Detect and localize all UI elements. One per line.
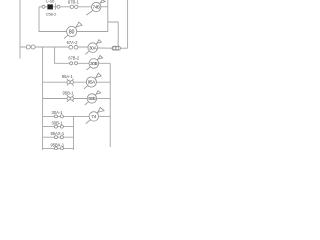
wire right bus R4 (109, 63, 111, 147)
wire right bus R1 (77, 0, 108, 32)
connector 67B-1 (68, 0, 80, 8)
svg-text:67B-1: 67B-1 (68, 0, 80, 5)
connector on W2 near left bus (26, 45, 35, 49)
wire fuse to R3 (121, 47, 128, 49)
wire 95B to R4 (97, 98, 111, 100)
connector 67A-2 (67, 40, 79, 49)
wire 95A row W4 (43, 81, 87, 83)
svg-text:C-58: C-58 (46, 0, 56, 4)
node 74 circled reference with flag (86, 107, 104, 123)
wire branch R2 to fuse top (108, 22, 118, 46)
wire 30B-1 row W7 (43, 126, 74, 128)
connector 95B-1 (crossed terminals) (63, 91, 75, 102)
svg-text:30A: 30A (89, 45, 97, 50)
wire 95AX-1 row W8 (43, 136, 74, 138)
svg-text:30B: 30B (90, 61, 98, 66)
svg-text:95B: 95B (88, 96, 96, 101)
wire 30A-1 row W6 (43, 115, 90, 117)
node 95A circled reference with flag (84, 73, 101, 89)
svg-text:C58-2: C58-2 (46, 12, 57, 17)
node 80 circled reference with flag (64, 22, 82, 38)
connector 30A-1 (52, 110, 64, 118)
connector 67B-2 (68, 56, 80, 65)
svg-text:95B-1: 95B-1 (63, 91, 75, 96)
svg-text:30A-1: 30A-1 (52, 110, 64, 115)
wire 95A to R4 (96, 81, 110, 83)
wire vertical L4 drop to 67B-2 row (55, 47, 72, 63)
connector 30B-1 (52, 120, 64, 128)
connector 95A-1 (crossed terminals) (62, 74, 74, 85)
node 95B circled reference with flag (85, 91, 101, 105)
svg-text:74B: 74B (93, 5, 100, 10)
node 30A circled reference with flag (85, 40, 101, 55)
svg-text:30B-1: 30B-1 (52, 120, 64, 125)
connector 95BX-1 (50, 142, 64, 150)
node 74B circled reference with flag (86, 0, 105, 15)
svg-text:95BX-1: 95BX-1 (50, 142, 64, 147)
node 30B circled reference with flag (87, 55, 103, 70)
wire bottom right rail (73, 116, 75, 150)
wire 95BX-1 row W9 (43, 147, 74, 149)
wire 74 to R4 (99, 115, 111, 117)
wire right bus R3 (127, 0, 129, 48)
connector 95AX-1 (50, 131, 64, 139)
svg-text:80: 80 (69, 30, 75, 36)
svg-text:95AX-1: 95AX-1 (50, 131, 64, 136)
wire 67B-2 row W3 (71, 62, 89, 64)
svg-text:95A: 95A (88, 80, 96, 85)
wire M-circle to right bus R1 (101, 6, 108, 8)
svg-text:74: 74 (91, 114, 97, 119)
wire 30A to fuse (98, 47, 112, 49)
wire main row W2 (20, 46, 88, 48)
wire 95B row W5 (43, 98, 88, 100)
svg-text:67A-2: 67A-2 (67, 40, 79, 45)
wire top row W1 (39, 6, 47, 8)
svg-text:67B-2: 67B-2 (68, 56, 80, 61)
wire vertical L3 main left rail (42, 47, 44, 150)
wire vertical L2 top row to 80 row (39, 7, 67, 32)
connector C58-2 (42, 0, 60, 17)
wire left bus L1 (19, 0, 21, 59)
svg-text:95A-1: 95A-1 (62, 74, 74, 79)
fuse F1 (112, 46, 121, 50)
